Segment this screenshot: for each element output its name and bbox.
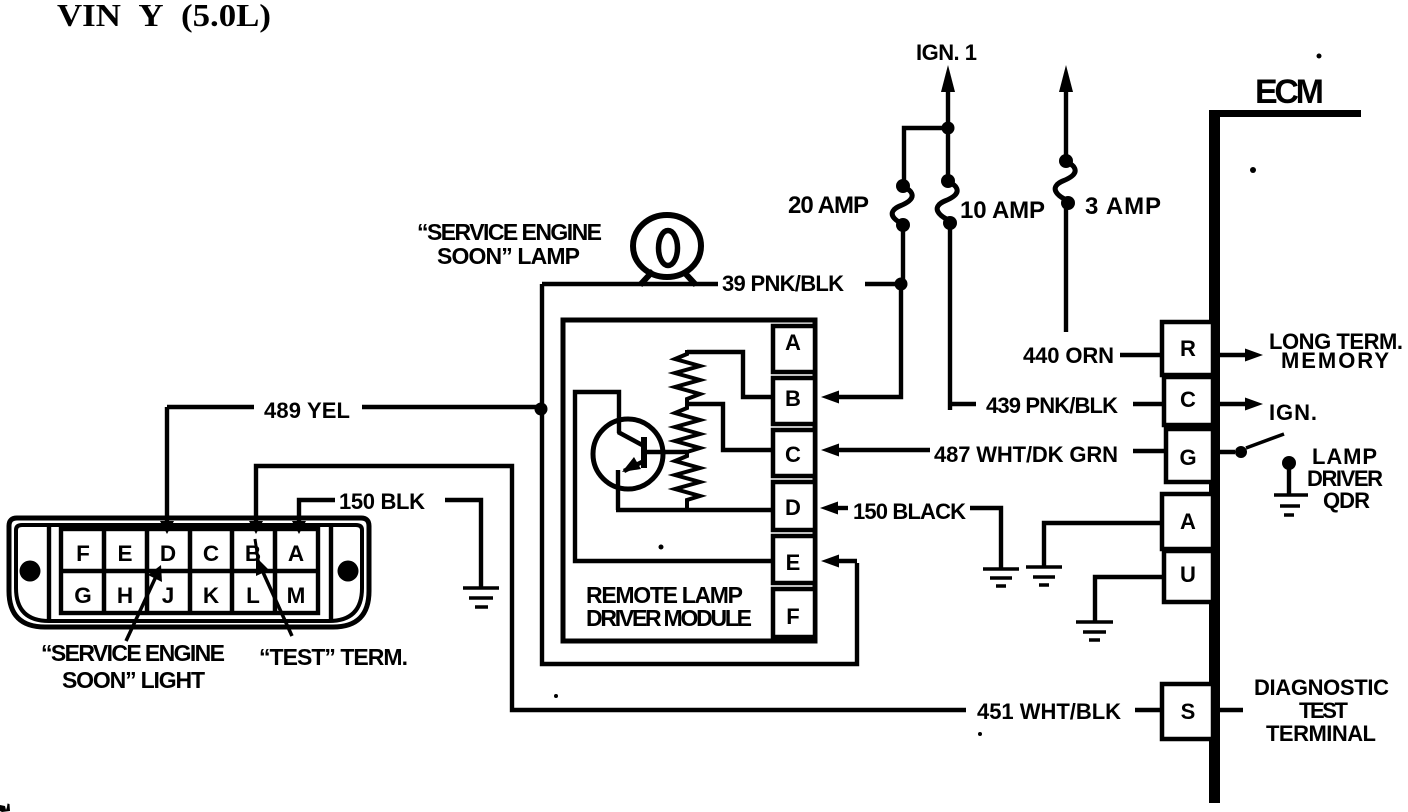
svg-text:G: G: [74, 583, 92, 608]
svg-text:C: C: [785, 442, 801, 467]
svg-text:E: E: [117, 541, 132, 566]
svg-text:150 BLK: 150 BLK: [339, 489, 425, 514]
svg-text:IGN. 1: IGN. 1: [916, 40, 977, 65]
svg-text:440 ORN: 440 ORN: [1023, 343, 1114, 368]
svg-text:451 WHT/BLK: 451 WHT/BLK: [977, 699, 1121, 724]
svg-text:D: D: [785, 495, 801, 520]
svg-text:DIAGNOSTIC: DIAGNOSTIC: [1254, 675, 1389, 700]
svg-text:B: B: [785, 386, 801, 411]
svg-text:“TEST” TERM.: “TEST” TERM.: [259, 644, 408, 670]
svg-text:150 BLACK: 150 BLACK: [853, 499, 966, 524]
svg-text:M: M: [287, 583, 306, 608]
svg-text:IGN.: IGN.: [1269, 400, 1317, 425]
svg-text:A: A: [288, 541, 304, 566]
svg-text:D: D: [160, 541, 176, 566]
svg-text:E: E: [786, 550, 801, 575]
svg-text:A: A: [785, 330, 801, 355]
svg-text:TEST: TEST: [1299, 698, 1349, 723]
svg-text:487 WHT/DK GRN: 487 WHT/DK GRN: [934, 442, 1118, 467]
svg-text:A: A: [1180, 509, 1196, 534]
svg-text:10 AMP: 10 AMP: [960, 197, 1045, 224]
svg-text:439 PNK/BLK: 439 PNK/BLK: [986, 393, 1118, 418]
svg-text:QDR: QDR: [1323, 488, 1370, 513]
svg-text:“SERVICE ENGINE: “SERVICE ENGINE: [41, 640, 225, 666]
svg-text:F: F: [786, 604, 799, 629]
svg-text:U: U: [1180, 562, 1196, 587]
svg-text:C: C: [203, 541, 219, 566]
svg-text:J: J: [162, 583, 175, 608]
svg-text:L: L: [246, 583, 260, 608]
svg-text:VIN Y (5.0L): VIN Y (5.0L): [57, 0, 271, 33]
svg-text:F: F: [76, 541, 90, 566]
svg-text:R: R: [1180, 336, 1196, 361]
svg-text:K: K: [203, 583, 220, 608]
svg-text:“SERVICE ENGINE: “SERVICE ENGINE: [417, 219, 602, 245]
svg-text:ECM: ECM: [1255, 73, 1324, 111]
svg-text:3 AMP: 3 AMP: [1085, 193, 1161, 220]
svg-text:G: G: [1179, 445, 1196, 470]
svg-text:39 PNK/BLK: 39 PNK/BLK: [722, 271, 844, 296]
svg-text:C: C: [1180, 387, 1196, 412]
svg-text:SOON” LAMP: SOON” LAMP: [437, 243, 580, 269]
svg-text:TERMINAL: TERMINAL: [1266, 721, 1376, 746]
svg-text:20 AMP: 20 AMP: [788, 192, 869, 219]
svg-text:SOON” LIGHT: SOON” LIGHT: [62, 667, 205, 693]
svg-text:489 YEL: 489 YEL: [264, 398, 350, 423]
svg-text:S: S: [1181, 699, 1196, 724]
svg-text:DRIVER MODULE: DRIVER MODULE: [586, 605, 752, 631]
svg-text:H: H: [117, 583, 133, 608]
